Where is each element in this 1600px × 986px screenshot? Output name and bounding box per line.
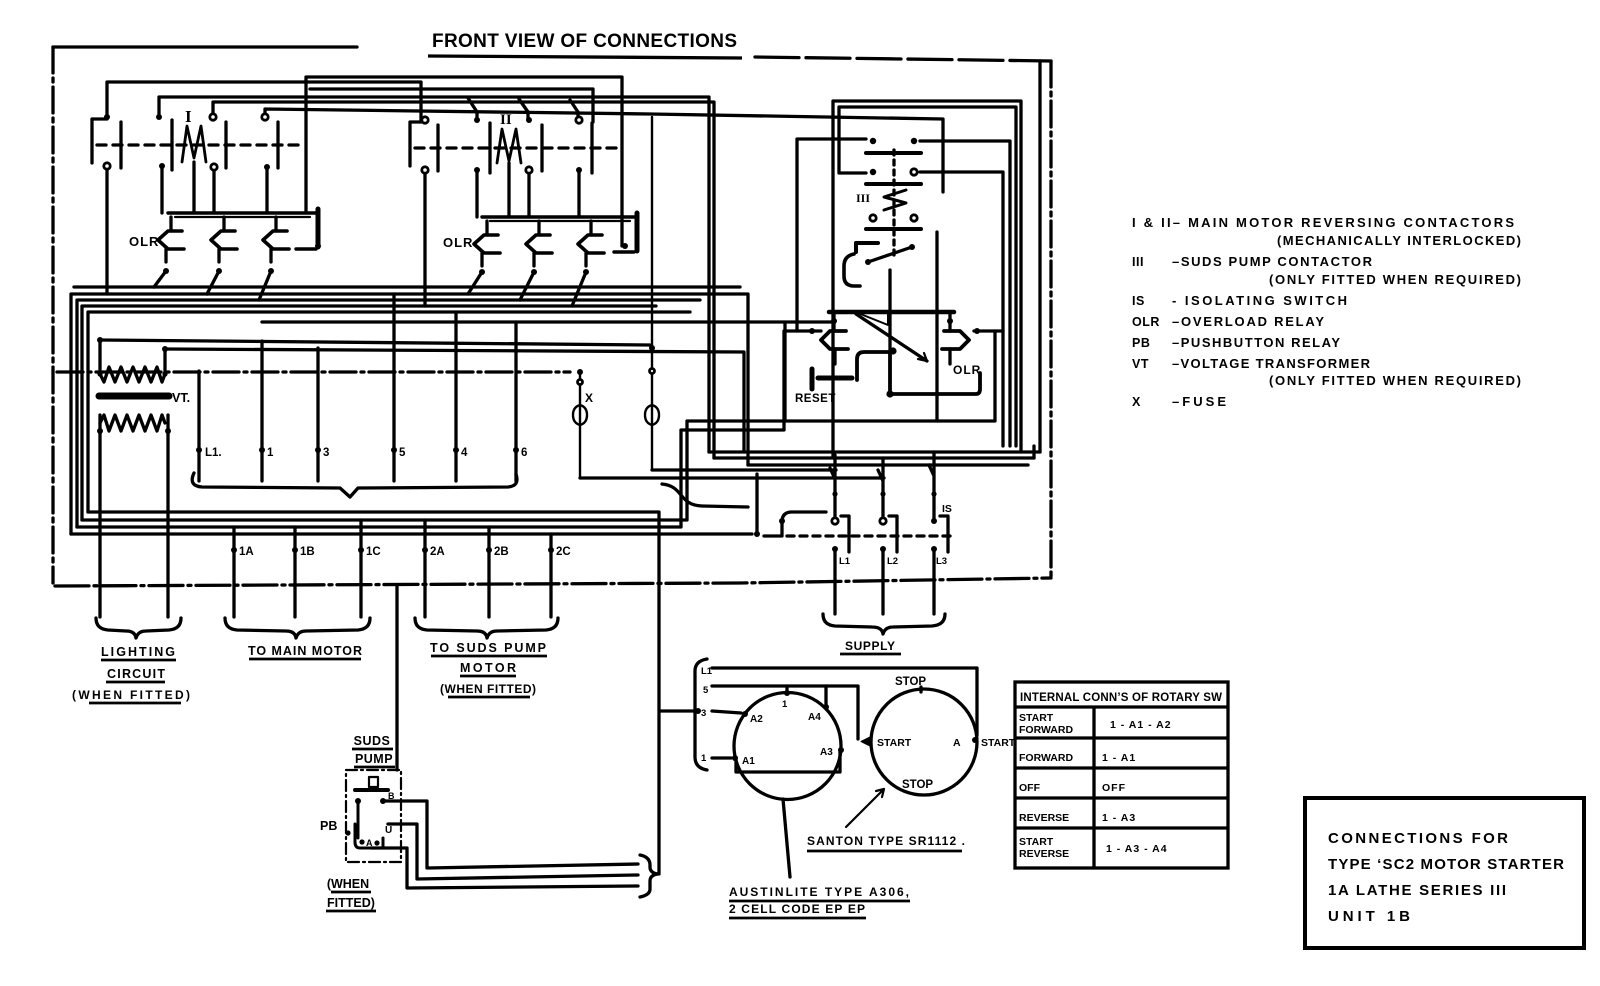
sub box housing	[785, 323, 995, 421]
wire coil I return	[192, 162, 195, 213]
wire PB out A	[371, 848, 638, 888]
svg-text:I: I	[185, 107, 192, 126]
node terminals 1A..2C	[231, 547, 237, 553]
contactor II pole bar b	[488, 123, 491, 173]
wire PB box top feed	[395, 586, 398, 770]
leader arrow to Santon label	[846, 789, 884, 827]
svg-text:START: START	[1019, 836, 1054, 848]
node contactor I top a	[104, 114, 110, 120]
terminal 1 riser	[260, 341, 263, 450]
svg-text:PB: PB	[320, 819, 337, 833]
terminal 5 riser	[392, 294, 395, 450]
node contactor I top b	[156, 114, 162, 120]
OLR II top run	[482, 215, 637, 218]
contactor III contact bar lower	[866, 227, 921, 231]
drum connection square	[736, 750, 840, 772]
node contactor I bottom d	[264, 164, 270, 170]
enclosure border top-right (chain line)	[755, 57, 1051, 61]
svg-text:IS: IS	[1132, 294, 1145, 308]
OLR I top run	[168, 211, 318, 214]
VT secondary stubs	[100, 415, 168, 431]
node open contactor II	[422, 117, 428, 123]
svg-text:1: 1	[701, 753, 707, 764]
latch hook lower (U)	[844, 254, 860, 286]
contactor I pole bar d	[276, 122, 279, 168]
wire mid bundle M2	[77, 300, 700, 527]
node open contactor III	[911, 169, 917, 175]
svg-text:5: 5	[399, 447, 406, 459]
Santon start arrowhead	[861, 737, 870, 746]
contactor II pole bar c	[540, 125, 543, 171]
enclosure border bottom (chain line)	[55, 578, 1051, 586]
fuse X right body	[645, 117, 659, 470]
svg-text:1 - A3: 1 - A3	[1102, 812, 1136, 824]
svg-text:A: A	[953, 737, 961, 749]
svg-text:1A LATHE SERIES III: 1A LATHE SERIES III	[1328, 882, 1506, 899]
node fuse tops	[577, 369, 583, 375]
wire blade drop	[935, 232, 938, 421]
svg-text:PB: PB	[1132, 336, 1150, 350]
svg-text:X: X	[1132, 395, 1141, 409]
contactor II left frame bar	[410, 122, 425, 166]
svg-text:(WHEN FITTED): (WHEN FITTED)	[440, 682, 536, 696]
OLR II plate	[635, 213, 640, 251]
node Santon terminals	[972, 737, 978, 743]
terminal L1 riser	[197, 371, 200, 450]
wire lower run to IS	[71, 532, 752, 535]
table row rules	[1015, 738, 1228, 828]
svg-text:2C: 2C	[556, 546, 571, 558]
heater element 3 OLR II	[578, 235, 604, 253]
node contactor I bottom b	[159, 163, 165, 169]
terminal 1B riser/drop	[293, 527, 296, 617]
svg-text:U: U	[385, 825, 392, 836]
wire fuse outputs to IS	[580, 470, 884, 478]
node OLR II plate	[622, 243, 628, 249]
VT core bar	[99, 393, 169, 400]
node contactor II bottom b	[474, 167, 480, 173]
VT primary winding	[100, 367, 165, 382]
contactor I coil	[182, 126, 206, 162]
svg-text:4: 4	[461, 447, 468, 459]
node blade pivot	[865, 259, 871, 265]
wire T2 to contactor II pole a	[107, 82, 421, 120]
svg-text:MOTOR: MOTOR	[460, 661, 516, 675]
table internal connections frame	[1015, 682, 1228, 868]
wire bundle bottom runs	[709, 452, 1040, 465]
wire rotary 1 line to A1	[712, 756, 731, 759]
wire VT left down to lighting	[98, 431, 101, 617]
contactor III unit box outer	[833, 101, 1021, 458]
OLR II plate foot	[614, 250, 634, 253]
node OLR I plate	[315, 243, 321, 249]
wire kinks feeding contactor II poles	[468, 98, 578, 120]
svg-text:FRONT VIEW OF CONNECTIONS: FRONT VIEW OF CONNECTIONS	[432, 31, 737, 52]
OLR I plate	[316, 209, 321, 247]
terminal 4 riser	[454, 312, 457, 450]
svg-text:–OVERLOAD RELAY: –OVERLOAD RELAY	[1172, 314, 1324, 329]
PB button cap	[369, 777, 378, 787]
wire contactor III contact to right riser	[920, 141, 1010, 446]
svg-text:1A: 1A	[239, 546, 254, 558]
svg-text:TYPE ‘SC2 MOTOR STARTER: TYPE ‘SC2 MOTOR STARTER	[1328, 856, 1564, 873]
node VT terminals	[97, 337, 103, 343]
switch blade contactor III	[868, 247, 912, 262]
brace supply	[823, 614, 945, 634]
wire drum top stub	[785, 686, 788, 693]
IS hook dash	[764, 534, 773, 537]
node fuse beads	[578, 380, 583, 385]
node PB contacts	[355, 798, 361, 804]
title block box	[1305, 798, 1584, 948]
contactor I pole bar b	[170, 120, 173, 170]
wire rotary L1 line	[712, 668, 977, 735]
svg-text:2A: 2A	[430, 546, 445, 558]
mechanism elbow right	[890, 352, 980, 394]
svg-text:A: A	[366, 838, 373, 848]
svg-text:2 CELL CODE EP EP: 2 CELL CODE EP EP	[729, 902, 865, 916]
brace lighting circuit	[96, 618, 181, 638]
contactor II pole bar d	[590, 123, 593, 173]
svg-text:UNIT 1B: UNIT 1B	[1328, 908, 1410, 925]
reset plunger bar	[810, 369, 815, 389]
svg-text:STOP: STOP	[895, 676, 926, 688]
svg-text:A2: A2	[750, 714, 763, 725]
terminal 3 riser	[316, 348, 319, 450]
node drum terminals	[784, 690, 790, 696]
svg-text:3: 3	[701, 708, 706, 719]
wire T3	[310, 89, 593, 122]
contactor III armature axis (dashed)	[892, 150, 895, 258]
wire right riser	[1034, 61, 1040, 458]
wire contactor III second contact right	[920, 172, 1003, 446]
contactor II pole bar a	[436, 125, 439, 171]
enclosure border left (chain line)	[51, 47, 54, 583]
heater feeds OLR I	[171, 217, 276, 231]
node open IS tops	[832, 518, 838, 524]
svg-text:CIRCUIT: CIRCUIT	[107, 667, 165, 681]
wire mid bundle M5	[74, 285, 740, 288]
node terminals L1..6	[196, 447, 202, 453]
OLR I top run 2	[175, 216, 310, 218]
OLR III lever arrowhead	[918, 353, 927, 361]
svg-text:B: B	[388, 791, 395, 801]
svg-text:FITTED): FITTED)	[327, 896, 375, 910]
wire lower run to sub box corner	[82, 421, 785, 520]
svg-text:OLR: OLR	[953, 363, 981, 377]
svg-text:I & II– MAIN MOTOR REVERSING C: I & II– MAIN MOTOR REVERSING CONTACTORS	[1132, 215, 1514, 230]
wire to OLR III bar	[262, 320, 831, 323]
OLR III lever	[856, 314, 927, 361]
node OLR III heater ends	[831, 318, 837, 324]
OLR III top bar	[829, 310, 954, 315]
wire lower run to rotary switch	[88, 512, 695, 874]
heater element 2 OLR I	[211, 231, 237, 249]
chain wire to fuse X	[57, 370, 570, 373]
heater tails OLR II	[482, 253, 586, 266]
svg-text:- ISOLATING SWITCH: - ISOLATING SWITCH	[1172, 293, 1347, 308]
leader line to Austinlite label	[783, 799, 790, 877]
heater element 3 OLR I	[263, 231, 289, 249]
contactor III contact bar upper	[866, 151, 921, 155]
svg-text:FORWARD: FORWARD	[1019, 752, 1073, 764]
wire heater to riser	[974, 329, 1003, 332]
svg-text:PUMP: PUMP	[355, 752, 393, 766]
wire PB out U	[388, 824, 638, 879]
svg-text:START: START	[1019, 712, 1054, 724]
svg-text:(WHEN: (WHEN	[327, 877, 369, 891]
VT primary stub left	[98, 340, 101, 374]
svg-text:L1: L1	[839, 556, 851, 567]
svg-text:REVERSE: REVERSE	[1019, 848, 1069, 860]
terminal 1C riser/drop	[359, 520, 362, 617]
svg-text:RESET: RESET	[795, 393, 836, 405]
svg-text:IS: IS	[942, 503, 952, 515]
svg-text:(MECHANICALLY INTERLOCKED): (MECHANICALLY INTERLOCKED)	[1277, 233, 1521, 248]
wire mid bundle M4	[88, 312, 690, 512]
heater right stub	[948, 313, 951, 364]
svg-text:LIGHTING: LIGHTING	[101, 645, 175, 659]
wire T4 outer loop	[159, 97, 709, 452]
IS pole bracket 2	[889, 516, 897, 552]
enclosure border top-left	[53, 45, 357, 48]
svg-text:START: START	[981, 737, 1016, 749]
heater left stub	[834, 313, 835, 364]
svg-text:INTERNAL CONN’S OF ROTARY SW: INTERNAL CONN’S OF ROTARY SW	[1020, 692, 1222, 704]
svg-text:5: 5	[703, 685, 709, 696]
IS pole bracket 1	[841, 516, 849, 552]
heater element 1 OLR II	[474, 235, 500, 253]
wire contactor III feed left	[797, 139, 866, 331]
contactor I pole bar c	[224, 122, 227, 168]
svg-text:REVERSE: REVERSE	[1019, 812, 1069, 824]
rotary switch drum (Austinlite)	[734, 693, 841, 800]
VT secondary winding	[100, 415, 165, 431]
brace to main motor	[225, 618, 370, 638]
svg-text:1: 1	[267, 447, 274, 459]
wire coil II return	[507, 163, 510, 217]
svg-text:SANTON TYPE SR1112 .: SANTON TYPE SR1112 .	[807, 834, 965, 848]
svg-text:1: 1	[782, 699, 788, 710]
svg-text:1B: 1B	[300, 546, 315, 558]
node mechanism joints	[889, 347, 896, 354]
terminal 6 riser	[514, 322, 517, 450]
contactor I pole bar a	[119, 122, 122, 168]
svg-text:L1: L1	[701, 666, 713, 677]
table header rule	[1015, 705, 1228, 708]
node OLR I tails	[163, 268, 169, 274]
OLR III trip triangle	[858, 313, 888, 325]
wire mid bundle M3	[82, 306, 656, 520]
node contactor II bottom d	[576, 167, 582, 173]
terminal 1A riser/drop	[232, 527, 235, 617]
svg-text:3: 3	[323, 447, 329, 459]
svg-text:VT: VT	[1132, 357, 1149, 371]
rotary feed bracket	[695, 659, 707, 770]
Santon stop tick	[919, 687, 922, 692]
svg-text:III: III	[1132, 255, 1144, 269]
PB button bar	[355, 788, 388, 792]
fuse X left body	[573, 372, 587, 478]
OLR II top run 2	[490, 220, 630, 222]
wire OLR I kinks to bundle	[154, 271, 271, 300]
svg-text:OLR: OLR	[1132, 315, 1160, 329]
wire supply drops	[835, 549, 934, 614]
wire rotary 5 line	[712, 686, 858, 739]
node rotary bracket junction	[695, 708, 701, 714]
svg-text:II: II	[500, 112, 512, 128]
node IS left link	[754, 531, 760, 537]
svg-text:III: III	[856, 191, 870, 205]
svg-text:1 - A3 - A4: 1 - A3 - A4	[1106, 843, 1168, 855]
PB lower contact bracket	[355, 824, 383, 848]
wire drum A4 stub	[824, 686, 827, 707]
IS switch axis (dashed)	[774, 534, 952, 537]
contactor I axis (dashed)	[97, 143, 305, 146]
enclosure border right (chain line)	[1049, 61, 1052, 578]
svg-text:TO SUDS PUMP: TO SUDS PUMP	[430, 641, 546, 655]
node IS feeds	[832, 491, 837, 496]
mechanism center link	[888, 270, 891, 351]
svg-text:2B: 2B	[494, 546, 509, 558]
svg-text:STOP: STOP	[902, 779, 933, 791]
svg-text:(ONLY FITTED WHEN REQUIRED): (ONLY FITTED WHEN REQUIRED)	[1269, 373, 1521, 388]
svg-text:–VOLTAGE TRANSFORMER: –VOLTAGE TRANSFORMER	[1172, 356, 1371, 371]
contactor II coil	[497, 129, 521, 163]
svg-text:1 - A1 - A2: 1 - A1 - A2	[1110, 719, 1172, 731]
svg-text:6: 6	[521, 447, 527, 459]
node IS bottoms	[832, 546, 838, 552]
rotary switch drum (Santon)	[871, 689, 977, 795]
wire mid bundle M1	[71, 294, 748, 534]
svg-text:FORWARD: FORWARD	[1019, 724, 1073, 736]
contactor I left frame bar	[92, 119, 107, 163]
reset plunger rod	[818, 376, 852, 381]
heater element left (OLR III)	[821, 331, 848, 349]
svg-text:L3: L3	[936, 556, 947, 567]
wire T5 loop	[213, 102, 714, 458]
node contactor III contacts	[870, 138, 876, 144]
latch hook upper	[856, 243, 878, 252]
heater element right (OLR III)	[942, 331, 969, 349]
svg-text:SUDS: SUDS	[354, 734, 391, 748]
svg-text:CONNECTIONS FOR: CONNECTIONS FOR	[1328, 830, 1508, 847]
s-link to supply side	[662, 484, 748, 507]
svg-text:–PUSHBUTTON RELAY: –PUSHBUTTON RELAY	[1172, 335, 1340, 350]
terminal 2C riser/drop	[549, 534, 552, 617]
wire OLR II kinks to bundle	[468, 272, 586, 306]
svg-text:L1.: L1.	[205, 447, 222, 459]
table column divider	[1092, 707, 1095, 868]
node open contactor I	[210, 114, 216, 120]
wire IS left link riser	[755, 474, 758, 534]
svg-text:–FUSE: –FUSE	[1172, 394, 1226, 409]
contactor III unit box inner	[839, 107, 1016, 446]
heater feeds OLR II	[487, 221, 591, 235]
terminal drops L1..6	[199, 450, 516, 481]
contactor III contact bar mid	[866, 182, 921, 186]
wire VT right down to lighting	[166, 431, 169, 617]
IS interlock hook	[782, 512, 826, 536]
svg-text:SUPPLY: SUPPLY	[845, 639, 895, 653]
svg-text:A3: A3	[820, 747, 833, 758]
svg-text:–SUDS PUMP CONTACTOR: –SUDS PUMP CONTACTOR	[1172, 254, 1373, 269]
svg-text:1 - A1: 1 - A1	[1102, 752, 1136, 764]
mechanism elbow left	[857, 352, 893, 380]
svg-text:OLR: OLR	[129, 234, 159, 249]
IS pole bracket 3	[940, 516, 948, 552]
brace PB wires	[640, 855, 658, 897]
svg-text:X: X	[585, 391, 593, 405]
svg-text:OFF: OFF	[1102, 782, 1126, 794]
node contactor II top b	[474, 117, 480, 123]
heater tails OLR I	[166, 249, 271, 262]
node contactor II top c	[526, 117, 532, 123]
terminal 2A riser/drop	[423, 520, 426, 617]
svg-text:(ONLY FITTED WHEN REQUIRED): (ONLY FITTED WHEN REQUIRED)	[1269, 272, 1521, 287]
wire contactor II bottoms	[425, 170, 579, 306]
wire PB out B	[383, 801, 638, 868]
svg-text:1C: 1C	[366, 546, 381, 558]
svg-text:A4: A4	[808, 712, 821, 723]
svg-text:L2: L2	[887, 556, 898, 567]
svg-text:AUSTINLITE TYPE A306,: AUSTINLITE TYPE A306,	[729, 885, 909, 899]
svg-text:START: START	[877, 737, 912, 749]
contactor III coil zigzag	[884, 190, 906, 210]
contactor II axis (dashed)	[415, 146, 620, 149]
wire PB contact drop	[357, 801, 360, 838]
VT primary stub right	[163, 349, 166, 374]
terminal 2B riser/drop	[487, 527, 490, 617]
wire rotary 3 line to A2	[712, 711, 741, 713]
svg-text:VT.: VT.	[172, 391, 190, 405]
svg-text:OFF: OFF	[1019, 782, 1041, 794]
bracket under L1..6	[192, 473, 517, 497]
OLR I plate foot	[296, 247, 316, 250]
wire contactor I bottoms to OLR	[107, 166, 267, 294]
svg-text:TO MAIN MOTOR: TO MAIN MOTOR	[248, 644, 362, 658]
wire VT feed lower	[165, 349, 744, 452]
heater element 1 OLR I	[158, 231, 184, 249]
node OLR II tails	[479, 269, 485, 275]
PB pushbutton box (chain)	[346, 770, 401, 862]
wire VT feed upper	[100, 340, 650, 345]
svg-text:A1: A1	[742, 756, 755, 767]
wire T6 to contactor III	[265, 109, 943, 192]
wire interlock loop T1	[306, 77, 622, 246]
wire lower run to sub box left	[77, 331, 821, 527]
heater element 2 OLR II	[526, 235, 552, 253]
wire IS feeds	[830, 452, 934, 521]
svg-text:OLR: OLR	[443, 235, 473, 250]
svg-text:(WHEN FITTED): (WHEN FITTED)	[72, 688, 190, 702]
brace to suds pump motor	[415, 618, 558, 638]
